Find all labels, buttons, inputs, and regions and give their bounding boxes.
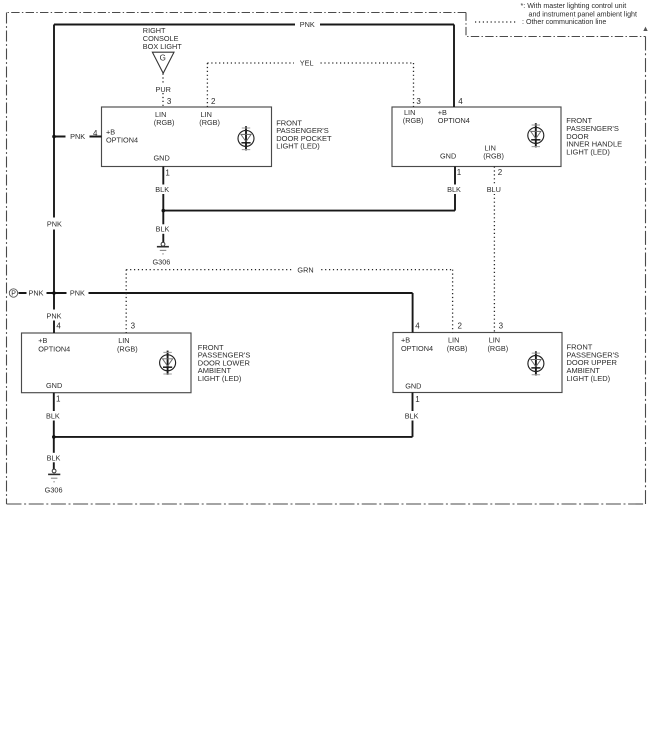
svg-text:BLK: BLK <box>405 412 419 421</box>
svg-text:PNK: PNK <box>28 289 43 298</box>
svg-text:1: 1 <box>457 168 462 177</box>
svg-text:LIGHT (LED): LIGHT (LED) <box>198 374 242 383</box>
svg-text:PNK: PNK <box>47 219 62 228</box>
svg-text:BOX LIGHT: BOX LIGHT <box>143 42 182 51</box>
svg-text:4: 4 <box>93 129 98 138</box>
svg-text:(RGB): (RGB) <box>403 116 424 125</box>
svg-text:LIGHT (LED): LIGHT (LED) <box>276 142 320 151</box>
svg-text:PUR: PUR <box>155 85 170 94</box>
svg-text:PNK: PNK <box>46 311 61 320</box>
svg-text:OPTION4: OPTION4 <box>401 344 433 353</box>
svg-text:1: 1 <box>165 168 170 177</box>
svg-text:BLK: BLK <box>155 185 169 194</box>
svg-text:(RGB): (RGB) <box>447 344 468 353</box>
svg-text:OPTION4: OPTION4 <box>438 116 470 125</box>
svg-text:P: P <box>11 291 16 298</box>
svg-text:3: 3 <box>416 97 421 106</box>
svg-text:PNK: PNK <box>70 289 85 298</box>
svg-text:(RGB): (RGB) <box>199 118 220 127</box>
svg-text:LIGHT (LED): LIGHT (LED) <box>567 374 611 383</box>
svg-text:3: 3 <box>131 322 136 331</box>
svg-text:PNK: PNK <box>300 20 315 29</box>
svg-text:4: 4 <box>56 322 61 331</box>
svg-text:2: 2 <box>211 97 216 106</box>
svg-text:2: 2 <box>458 321 463 330</box>
svg-text:G306: G306 <box>45 486 63 495</box>
svg-text:2: 2 <box>498 168 503 177</box>
svg-text:OPTION4: OPTION4 <box>106 135 138 144</box>
svg-text:4: 4 <box>415 321 420 330</box>
svg-text:1: 1 <box>56 394 61 403</box>
svg-text:GND: GND <box>440 151 456 160</box>
svg-text:GRN: GRN <box>297 265 313 274</box>
svg-text:3: 3 <box>167 97 172 106</box>
svg-text:GND: GND <box>405 382 421 391</box>
svg-text:BLU: BLU <box>487 185 501 194</box>
svg-text:LIGHT (LED): LIGHT (LED) <box>566 147 610 156</box>
svg-text:(RGB): (RGB) <box>483 151 504 160</box>
svg-text:BLK: BLK <box>447 185 461 194</box>
svg-text:3: 3 <box>499 321 504 330</box>
svg-text:: Other communication line: : Other communication line <box>522 18 606 26</box>
svg-text:4: 4 <box>458 97 463 106</box>
svg-text:(RGB): (RGB) <box>488 344 509 353</box>
svg-text:1: 1 <box>415 395 420 404</box>
svg-text:YEL: YEL <box>300 59 314 68</box>
svg-text:G306: G306 <box>152 258 170 267</box>
svg-text:G: G <box>160 54 166 63</box>
svg-text:GND: GND <box>154 154 170 163</box>
svg-text:BLK: BLK <box>46 412 60 421</box>
svg-text:GND: GND <box>46 381 62 390</box>
svg-text:BLK: BLK <box>156 225 170 234</box>
svg-text:OPTION4: OPTION4 <box>38 344 70 353</box>
svg-text:(RGB): (RGB) <box>154 118 175 127</box>
svg-text:*: With master lighting contro: *: With master lighting control unit <box>521 2 627 10</box>
svg-text:(RGB): (RGB) <box>117 344 138 353</box>
svg-text:BLK: BLK <box>47 453 61 462</box>
svg-text:PNK: PNK <box>70 132 85 141</box>
